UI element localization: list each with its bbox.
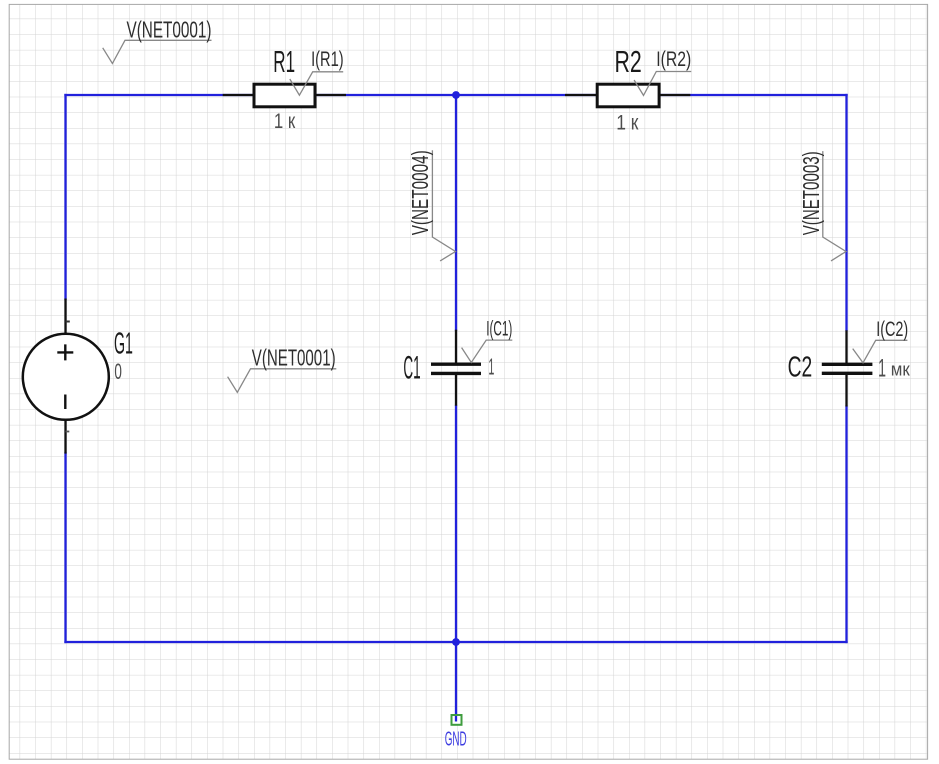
svg-text:R2: R2 bbox=[615, 44, 642, 79]
ground wire tip inside square bbox=[455, 716, 457, 722]
svg-text:C1: C1 bbox=[403, 350, 420, 386]
source G1 minus bar bbox=[64, 395, 66, 410]
source G1 top pin tick bbox=[66, 321, 70, 323]
svg-text:C2: C2 bbox=[788, 351, 813, 383]
probe marker for V(NET0001) middle bbox=[228, 369, 337, 393]
resistor R1 left pin lead bbox=[223, 94, 253, 96]
wire: C1 branch upper (top bus junction down to C1) bbox=[455, 95, 457, 330]
probe marker for I(C1) bbox=[462, 340, 513, 362]
probe marker for V(NET0001) top-left bbox=[103, 40, 212, 63]
wire: bottom bus bbox=[66, 641, 847, 643]
wire: C1 branch lower (C1 down to bottom bus junction) bbox=[455, 406, 457, 642]
source G1 top pin lead bbox=[64, 299, 66, 335]
probe marker for V(NET0003) bbox=[823, 151, 846, 261]
wire: right leg lower (C2 down to bottom bus) bbox=[845, 407, 847, 643]
svg-text:V(NET0004): V(NET0004) bbox=[407, 150, 433, 235]
svg-text:V(NET0003): V(NET0003) bbox=[798, 151, 824, 235]
resistor R2 right pin lead bbox=[660, 94, 690, 96]
wire: left leg upper (top bus down to G1 plus pin) bbox=[64, 95, 66, 299]
source G1 bottom pin lead bbox=[64, 420, 66, 454]
svg-text:мк: мк bbox=[891, 360, 910, 380]
svg-text:0: 0 bbox=[114, 359, 122, 384]
svg-text:1 к: 1 к bbox=[616, 111, 639, 134]
resistor R1 body bbox=[254, 84, 315, 107]
capacitor C2 plates bbox=[822, 364, 873, 373]
svg-text:G1: G1 bbox=[114, 326, 133, 361]
svg-text:I(R1): I(R1) bbox=[311, 48, 344, 71]
svg-text:I(C1): I(C1) bbox=[486, 318, 512, 341]
resistor R1 right pin lead bbox=[316, 94, 346, 96]
resistor R2 body bbox=[597, 84, 659, 107]
wire: right leg upper (top bus down to C2) bbox=[845, 95, 847, 330]
svg-text:R1: R1 bbox=[273, 44, 295, 79]
capacitor C1 top pin lead bbox=[455, 330, 457, 363]
svg-text:1: 1 bbox=[488, 353, 494, 379]
svg-text:GND: GND bbox=[445, 728, 467, 750]
source G1 plus sign bbox=[57, 344, 73, 360]
probe marker for I(R1) bbox=[290, 72, 343, 95]
probe marker for I(R2) bbox=[634, 72, 691, 96]
ground terminal square bbox=[452, 715, 462, 725]
capacitor C2 top pin lead bbox=[845, 330, 847, 363]
probe marker for I(C2) bbox=[853, 340, 908, 363]
svg-text:I(C2): I(C2) bbox=[876, 318, 908, 341]
capacitor C1 plates bbox=[431, 364, 481, 373]
source G1 circle body bbox=[23, 334, 109, 420]
source G1 bottom pin tick bbox=[66, 431, 70, 433]
svg-text:V(NET0001): V(NET0001) bbox=[252, 344, 336, 370]
capacitor C1 bottom pin lead bbox=[455, 375, 457, 406]
svg-text:V(NET0001): V(NET0001) bbox=[127, 16, 212, 42]
svg-text:I(R2): I(R2) bbox=[656, 48, 691, 71]
wire: left leg lower (G1 minus pin down to bottom bus) bbox=[64, 453, 66, 642]
wire: top bus from G1 branch to C2 branch bbox=[66, 94, 847, 96]
capacitor C2 bottom pin lead bbox=[845, 375, 847, 407]
wire: GND stub bbox=[455, 642, 457, 721]
resistor R2 left pin lead bbox=[565, 94, 597, 96]
junction dot on top bus at C1 branch bbox=[452, 91, 460, 99]
svg-text:1 к: 1 к bbox=[274, 110, 296, 133]
junction dot on bottom bus at GND stub bbox=[452, 638, 460, 646]
probe marker for V(NET0004) bbox=[432, 150, 455, 261]
svg-text:1: 1 bbox=[878, 354, 886, 382]
